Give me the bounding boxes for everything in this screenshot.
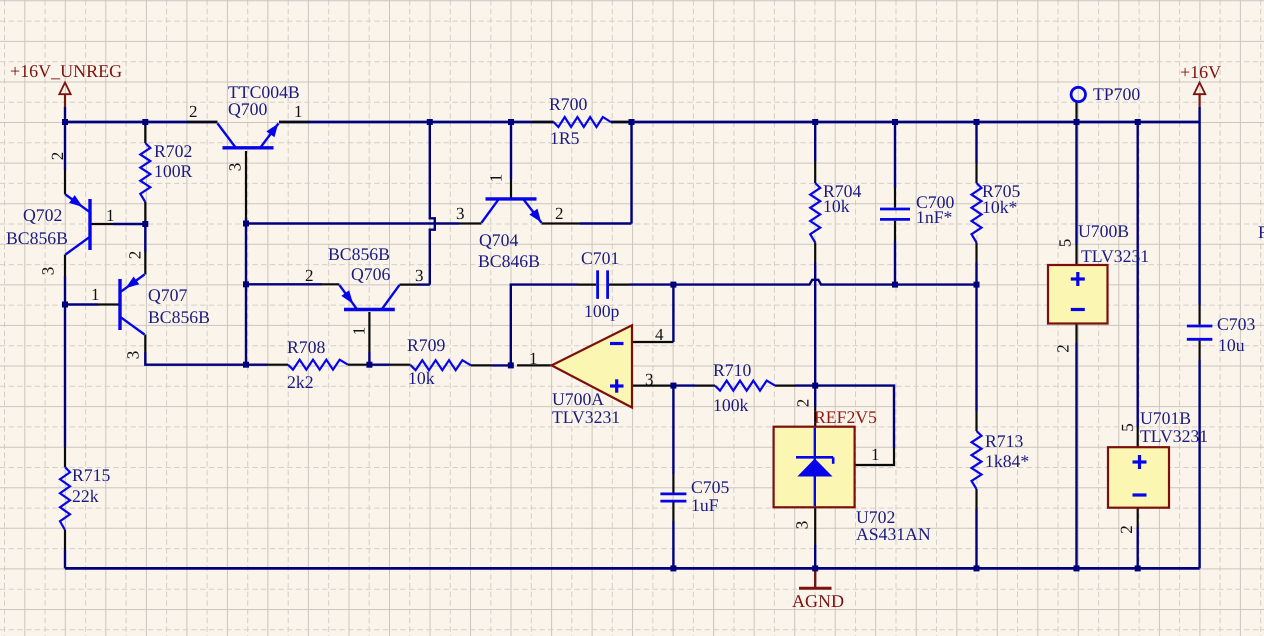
svg-text:TLV3231: TLV3231 [1140,426,1208,446]
svg-text:3: 3 [793,521,812,530]
svg-text:Q706: Q706 [351,264,390,284]
svg-text:100p: 100p [584,301,620,321]
svg-text:3: 3 [124,351,143,360]
svg-text:1k84*: 1k84* [985,451,1029,471]
svg-text:2: 2 [794,399,813,408]
svg-text:1: 1 [91,285,100,304]
svg-text:1: 1 [106,206,115,225]
svg-text:1: 1 [529,349,538,368]
svg-text:AS431AN: AS431AN [856,524,931,544]
svg-text:R708: R708 [287,337,325,357]
svg-text:4: 4 [655,325,664,344]
svg-text:10u: 10u [1218,335,1245,355]
svg-text:10k: 10k [823,196,850,216]
svg-text:2: 2 [555,204,564,223]
svg-text:1: 1 [294,102,303,121]
svg-text:U700B: U700B [1078,221,1129,241]
svg-text:2: 2 [1054,344,1073,353]
svg-text:R709: R709 [407,335,445,355]
svg-text:BC856B: BC856B [328,244,390,264]
svg-text:2: 2 [189,102,198,121]
svg-text:3: 3 [39,267,58,276]
svg-text:2k2: 2k2 [287,372,314,392]
svg-text:BC856B: BC856B [6,228,68,248]
svg-text:1uF: 1uF [691,495,719,515]
svg-text:2: 2 [126,251,145,260]
svg-text:R713: R713 [985,431,1023,451]
svg-text:5: 5 [1118,423,1137,432]
svg-text:2: 2 [48,152,67,161]
svg-text:Q704: Q704 [479,230,518,250]
svg-text:Q700: Q700 [228,99,267,119]
svg-text:100k: 100k [713,395,749,415]
svg-text:1nF*: 1nF* [916,207,952,227]
svg-text:22k: 22k [72,486,99,506]
svg-text:BC846B: BC846B [478,251,540,271]
svg-text:2: 2 [305,266,314,285]
svg-text:+16V_UNREG: +16V_UNREG [10,61,122,81]
svg-text:R7: R7 [1258,222,1264,242]
svg-text:3: 3 [456,204,465,223]
svg-text:TLV3231: TLV3231 [552,407,620,427]
svg-text:2: 2 [1117,525,1136,534]
svg-text:C701: C701 [581,248,619,268]
svg-text:REF2V5: REF2V5 [814,407,877,427]
svg-text:1: 1 [871,445,880,464]
svg-text:100R: 100R [154,161,193,181]
svg-text:10k*: 10k* [982,197,1017,217]
svg-text:+16V: +16V [1180,62,1221,82]
svg-text:3: 3 [645,370,654,389]
svg-text:Q707: Q707 [148,285,187,305]
svg-text:3: 3 [226,163,245,172]
svg-text:R710: R710 [713,360,751,380]
svg-text:C703: C703 [1217,314,1255,334]
svg-text:3: 3 [415,266,424,285]
svg-text:Q702: Q702 [23,205,62,225]
svg-text:1: 1 [487,174,506,183]
svg-text:5: 5 [1056,239,1075,248]
svg-text:AGND: AGND [792,591,844,611]
svg-text:1R5: 1R5 [550,128,580,148]
svg-text:TP700: TP700 [1093,84,1140,104]
svg-text:1: 1 [350,327,369,336]
svg-text:C705: C705 [691,477,729,497]
svg-text:BC856B: BC856B [148,307,210,327]
svg-text:R702: R702 [154,141,192,161]
svg-text:TLV3231: TLV3231 [1081,246,1149,266]
svg-text:10k: 10k [408,368,435,388]
svg-text:R715: R715 [72,465,110,485]
svg-text:U700A: U700A [552,389,604,409]
svg-text:R700: R700 [549,94,587,114]
svg-text:U701B: U701B [1140,408,1191,428]
